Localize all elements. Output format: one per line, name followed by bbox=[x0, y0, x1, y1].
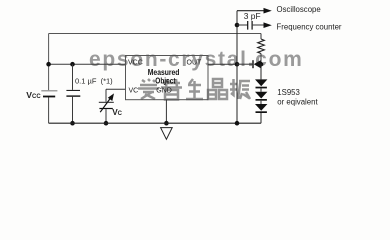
diode D3 bbox=[255, 101, 267, 124]
variable capacitor Vc bbox=[99, 89, 114, 123]
resistor R1 bbox=[258, 34, 265, 65]
char sheng bbox=[186, 79, 203, 99]
node: junction mid rail / 0.1uF branch bbox=[70, 62, 75, 67]
svg-text:VCC: VCC bbox=[128, 60, 143, 67]
svg-text:GND: GND bbox=[156, 88, 172, 95]
wire: top rail bbox=[49, 33, 261, 35]
wire: mid rail (Vcc feed) bbox=[49, 63, 126, 65]
node: junction OUT / riser bbox=[235, 62, 240, 67]
char zhen bbox=[230, 79, 250, 99]
wire: OUT pin to riser bbox=[208, 63, 237, 65]
wire: left rail lower bbox=[48, 97, 50, 123]
node: junction 0.1uF / bottom rail bbox=[70, 121, 75, 126]
wire: VC pin to varicap bbox=[106, 88, 126, 90]
arrow to frequency counter bbox=[264, 22, 272, 28]
capacitor C2 3 pF bbox=[237, 21, 264, 30]
svg-text:Object: Object bbox=[155, 76, 176, 85]
watermark text epson-crystal.com bbox=[89, 48, 303, 71]
diode D2 bbox=[255, 88, 267, 100]
node: junction riser / 3pF branch bbox=[235, 23, 240, 28]
svg-text:or eqivalent: or eqivalent bbox=[277, 97, 318, 106]
ground symbol bbox=[161, 128, 173, 140]
diode D4 (horizontal, pointing left) bbox=[237, 60, 261, 68]
wire: riser (node A vertical) bbox=[236, 11, 238, 124]
char pu bbox=[161, 79, 182, 100]
svg-text:VC: VC bbox=[129, 88, 139, 95]
wire: GND pin down bbox=[165, 100, 167, 124]
node: junction left rail / mid rail bbox=[46, 62, 51, 67]
watermark CJK 爱普生晶振 bbox=[138, 79, 250, 100]
char jing bbox=[208, 79, 227, 99]
svg-text:Oscilloscope: Oscilloscope bbox=[277, 5, 321, 14]
measured object box U1 bbox=[126, 56, 209, 100]
svg-text:OUT: OUT bbox=[187, 60, 203, 67]
wire: bottom rail bbox=[49, 122, 261, 124]
arrow to oscilloscope bbox=[264, 8, 272, 14]
wire: oscilloscope branch bbox=[237, 10, 264, 12]
node: junction varicap / bottom rail bbox=[104, 121, 109, 126]
battery Vcc bbox=[41, 90, 57, 97]
svg-text:1S953: 1S953 bbox=[277, 88, 300, 97]
svg-text:3 pF: 3 pF bbox=[244, 11, 261, 21]
capacitor C1 0.1 uF bbox=[66, 64, 80, 123]
svg-text:Frequency counter: Frequency counter bbox=[277, 22, 342, 31]
node: junction resistor / diode chain bbox=[259, 62, 264, 67]
diode D1 bbox=[255, 64, 267, 88]
svg-text:0.1 µF (*1): 0.1 µF (*1) bbox=[75, 77, 113, 86]
wire: left rail upper bbox=[48, 34, 50, 91]
char ai bbox=[138, 79, 159, 99]
node: junction riser / bottom rail bbox=[235, 121, 240, 126]
node: junction GND / bottom rail bbox=[164, 121, 169, 126]
